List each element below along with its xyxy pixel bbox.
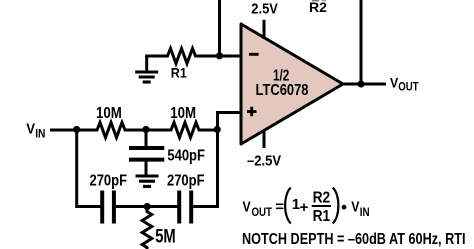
svg-text:R1: R1 (171, 64, 187, 80)
wire: R2 to output vertical (cut at top) (360, 0, 363, 84)
label VOUT (390, 75, 419, 93)
svg-text:IN: IN (360, 205, 370, 219)
node C: +input junction (214, 126, 221, 133)
power pin -2.5V (263, 130, 266, 149)
resistor 5M (lower lead cut by frame) (142, 207, 152, 249)
node D: bottom branch junction (144, 203, 151, 210)
svg-text:LTC6078: LTC6078 (256, 82, 309, 99)
svg-text:OUT: OUT (252, 205, 273, 219)
resistor 10M (first) (94, 123, 129, 138)
wire: second 10M to +input corner (202, 129, 218, 132)
svg-text:V: V (351, 199, 359, 216)
svg-text:270pF: 270pF (90, 173, 128, 190)
svg-text:R2: R2 (309, 0, 327, 15)
svg-text:–2.5V: –2.5V (247, 153, 281, 169)
wire: feedback left vertical (from R2 above frame) (218, 0, 221, 56)
svg-text:OUT: OUT (398, 80, 419, 94)
wire: VIN to first 10M (50, 129, 95, 132)
svg-text:R1: R1 (313, 208, 331, 225)
wire: ground corner to R1 left terminal (145, 55, 166, 58)
svg-text:540pF: 540pF (167, 147, 205, 164)
wire: right 270pF to vertical (193, 205, 219, 208)
ground (R1 input) (135, 56, 158, 82)
node: output junction (357, 80, 364, 87)
op-amp U1 1/2 LTC6078 (241, 24, 343, 144)
wire: vertical to noninverting input and down to bottom branch (216, 111, 219, 208)
resistor R2 (symbol off-frame above; cut remnant marks) (312, 0, 326, 1)
wire: op-amp output (342, 83, 386, 86)
svg-text:10M: 10M (96, 105, 122, 122)
label VIN (26, 121, 45, 140)
svg-text:V: V (26, 121, 35, 137)
svg-text:270pF: 270pF (167, 173, 205, 190)
svg-text:+: + (300, 199, 309, 216)
svg-text:=: = (275, 198, 284, 215)
wire: R1 to inverting input (198, 55, 241, 58)
svg-text:NOTCH DEPTH = –60dB AT 60Hz, R: NOTCH DEPTH = –60dB AT 60Hz, RTI (242, 231, 466, 248)
resistor 10M (second) (168, 123, 203, 138)
node A: VIN / bottom-branch junction (73, 126, 80, 133)
svg-text:5M: 5M (155, 225, 176, 247)
left parenthesis (285, 188, 291, 224)
svg-text:2.5V: 2.5V (251, 1, 278, 18)
capacitor 270pF (left) (102, 191, 114, 224)
wire: bottom branch left leg (77, 130, 101, 207)
svg-text:V: V (390, 75, 398, 90)
inverting input minus sign (249, 53, 259, 56)
bullet (342, 205, 347, 210)
formula: VOUT = (1 + R2/R1) * VIN (243, 188, 370, 226)
right parenthesis (333, 188, 339, 224)
capacitor 540pF (129, 130, 164, 175)
resistor R1 (165, 49, 200, 64)
node B: T-network middle junction (142, 126, 149, 133)
wire: between 10M resistors (128, 129, 169, 132)
svg-text:V: V (243, 199, 251, 216)
node: feedback / inverting-input junction (216, 52, 223, 59)
power pin +2.5V (263, 20, 266, 39)
noninverting input plus sign (247, 110, 257, 113)
svg-text:IN: IN (35, 126, 45, 140)
svg-text:10M: 10M (170, 105, 196, 122)
svg-text:R2: R2 (313, 190, 331, 207)
capacitor 270pF (right) (179, 191, 191, 224)
wire: between bottom capacitors (116, 205, 178, 208)
ground (540pF) (136, 176, 159, 186)
